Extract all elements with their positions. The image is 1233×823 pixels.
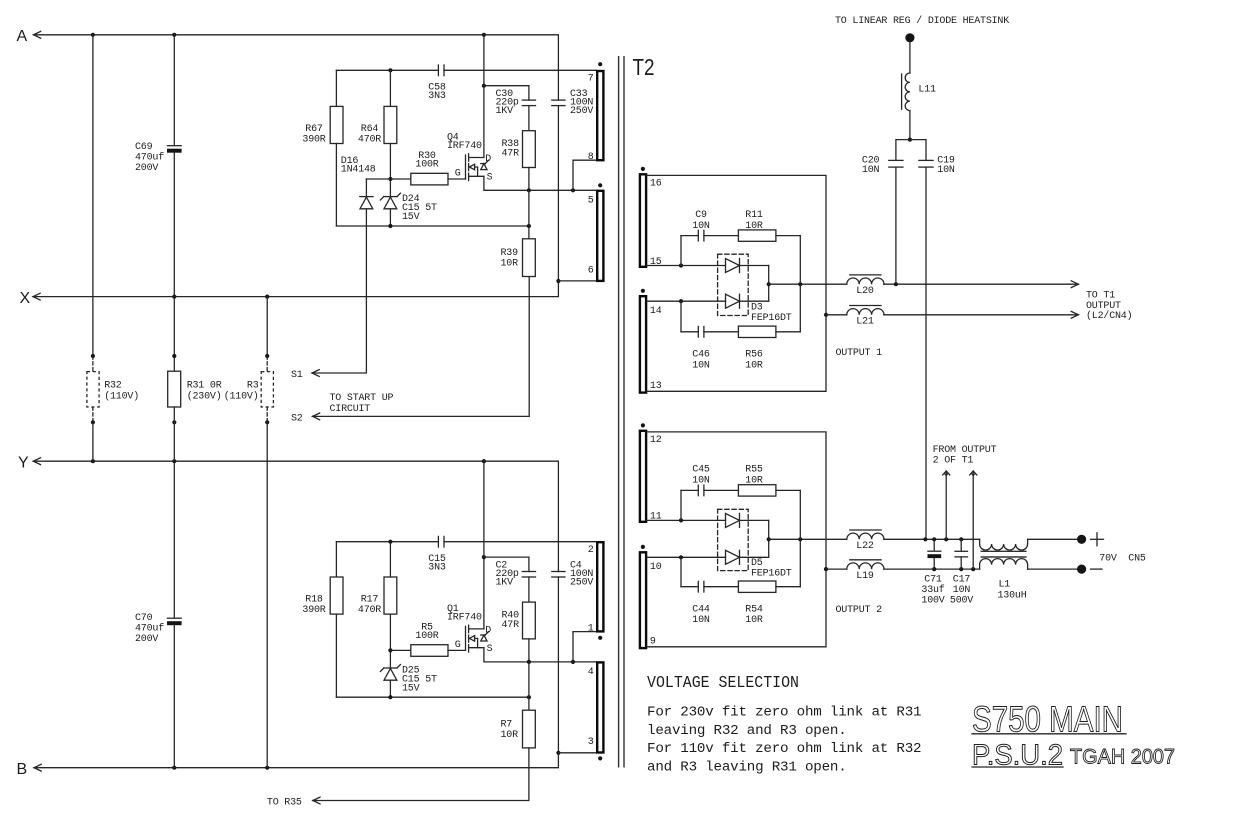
svg-text:(110V): (110V) [104, 390, 139, 402]
wire L11 to junction [909, 111, 911, 140]
svg-text:R17: R17 [361, 595, 379, 606]
inductor L20 [847, 278, 884, 284]
svg-text:15V: 15V [402, 683, 420, 694]
junction gate row/R17 [388, 648, 392, 652]
wire C46 to R56 [704, 331, 739, 333]
wire pin10 row [646, 556, 725, 558]
svg-text:C46: C46 [692, 350, 710, 361]
wire D5 upper cathode [740, 519, 769, 521]
junction out2/C17 [959, 537, 963, 541]
winding T2 pins 7-8 [598, 62, 602, 66]
junction ret/from-T1 b [971, 567, 975, 571]
resistor R64 [384, 106, 397, 143]
junction B/C70 [172, 766, 176, 770]
wire A rail [34, 31, 41, 38]
svg-text:IRF740: IRF740 [447, 141, 482, 152]
wire snubber row3 [681, 489, 698, 491]
wire pin14 row [646, 300, 725, 302]
wire gate lead [448, 178, 466, 180]
svg-text:10R: 10R [745, 221, 763, 232]
snubber C44 branch [680, 557, 682, 586]
svg-text:Y: Y [18, 455, 29, 472]
junction D5 output [767, 537, 771, 541]
wire R40 to source row [528, 639, 530, 662]
wire source row [484, 176, 597, 190]
svg-text:390R: 390R [302, 135, 325, 146]
wire R31 branch upper [173, 297, 175, 372]
wire bottom cell row pin2 [336, 541, 438, 543]
junction ret/C17 [959, 567, 963, 571]
inductor L11 [905, 73, 910, 111]
wire D3 cathode junction [768, 266, 770, 302]
node R3 top [265, 354, 269, 358]
svg-text:470uf: 470uf [135, 623, 164, 635]
svg-text:250V: 250V [570, 577, 593, 588]
svg-text:10R: 10R [745, 360, 763, 371]
junction out2/from-T1 a [944, 537, 948, 541]
svg-text:A: A [17, 28, 28, 45]
capacitor C46 [697, 327, 699, 338]
svg-text:CIRCUIT: CIRCUIT [330, 404, 371, 415]
winding T2 pins 2-1 [597, 542, 603, 631]
svg-text:14: 14 [650, 306, 662, 317]
wire snubber row1 [681, 235, 698, 237]
svg-text:47R: 47R [502, 620, 520, 631]
wire output1 mid row [769, 283, 847, 285]
wire R11 right [776, 235, 800, 237]
wire source row Q1 [484, 648, 597, 662]
wire pin15 row [646, 265, 725, 267]
junction out2/C19 [923, 537, 927, 541]
wire D3 lower cathode [740, 300, 769, 302]
svg-text:R3: R3 [247, 381, 259, 392]
node R32 top [91, 354, 95, 358]
wire C45 to R55 [704, 489, 739, 491]
capacitor C58 [437, 65, 439, 76]
svg-text:TO START UP: TO START UP [330, 393, 394, 404]
svg-text:R39: R39 [501, 248, 519, 259]
svg-text:10N: 10N [937, 165, 955, 176]
svg-text:9: 9 [650, 636, 656, 647]
resistor R3 (110V, not fitted) [266, 356, 268, 372]
inductor L1 bottom winding [980, 559, 1028, 570]
capacitor C4 [557, 542, 559, 572]
svg-text:For 110v fit zero ohm link at: For 110v fit zero ohm link at R32 [647, 741, 921, 757]
wire pin3 row [558, 752, 596, 754]
resistor R40 [523, 602, 536, 639]
svg-text:S2: S2 [291, 414, 303, 425]
svg-text:4: 4 [588, 667, 594, 678]
svg-text:S: S [487, 644, 493, 655]
snubber C46 branch [680, 301, 682, 332]
svg-text:1KV: 1KV [496, 577, 514, 588]
svg-text:L11: L11 [918, 84, 936, 95]
capacitor C9 [697, 230, 699, 241]
junction C4/pin3 [556, 751, 560, 755]
wire R39 upper leg [528, 190, 530, 239]
resistor R30 [411, 173, 448, 185]
wire D5 cathode junction [768, 520, 770, 557]
svg-text:200V: 200V [135, 163, 158, 174]
svg-text:10N: 10N [862, 165, 880, 176]
svg-text:VOLTAGE SELECTION: VOLTAGE SELECTION [647, 674, 799, 693]
capacitor C33 [557, 70, 559, 100]
svg-text:15V: 15V [402, 212, 420, 223]
svg-text:13: 13 [650, 381, 662, 392]
wire pin11 row [646, 519, 725, 521]
wire C20 to output1 [895, 167, 897, 284]
wire R17 to gate row [389, 614, 391, 650]
diode D16 1N4148 [360, 196, 373, 198]
wire pin8 elbow [573, 160, 597, 190]
node R31 bottom [172, 420, 176, 424]
transformer T2 core [618, 56, 620, 768]
svg-text:10R: 10R [745, 476, 763, 487]
svg-text:G: G [455, 640, 461, 651]
wire R64 to gate row [389, 144, 391, 180]
svg-text:L1: L1 [999, 580, 1011, 591]
resistor R17 [384, 577, 397, 614]
svg-text:S1: S1 [291, 370, 303, 381]
transistor Q1 IRF740 [465, 626, 467, 650]
junction gate row/R64 [388, 177, 392, 181]
junction Y/R32 [91, 459, 95, 463]
wire snubber right leg 2 [799, 490, 801, 586]
junction X/R3 [265, 295, 269, 299]
wire C44 to R54 [704, 586, 739, 588]
node R31 top [172, 354, 176, 358]
junction out2/C71 [932, 537, 936, 541]
capacitor C45 [697, 485, 699, 496]
svg-text:10N: 10N [692, 221, 710, 232]
wire C69 branch upper [173, 35, 175, 145]
svg-text:130uH: 130uH [998, 591, 1027, 602]
winding T2 pins 4-3 [597, 662, 603, 752]
resistor R18 [330, 577, 343, 614]
junction snubber/output2 [798, 537, 802, 541]
resistor R67 [330, 106, 343, 143]
zener D24 [389, 179, 391, 197]
wire Y rail [33, 458, 40, 465]
resistor R5 [411, 645, 448, 657]
terminal CN5 - [1077, 565, 1086, 574]
junction output1/C20 [894, 282, 898, 286]
svg-text:L21: L21 [856, 316, 874, 327]
svg-text:100R: 100R [415, 160, 438, 171]
wire snubber right leg [799, 236, 801, 332]
svg-text:TO LINEAR REG / DIODE HEATSINK: TO LINEAR REG / DIODE HEATSINK [835, 15, 1009, 27]
svg-text:5: 5 [588, 196, 594, 207]
wire top cell row pin7 [336, 69, 438, 71]
svg-text:C69: C69 [135, 142, 153, 153]
wire R54 right [776, 586, 800, 588]
junction L11/C20/C19 [908, 138, 912, 142]
resistor R32 (110V, not fitted) [92, 356, 94, 372]
svg-text:R67: R67 [305, 124, 323, 135]
wire Q1 drain to Y [483, 461, 485, 629]
svg-text:C9: C9 [695, 210, 707, 221]
svg-text:C44: C44 [692, 605, 710, 616]
wire B rail [34, 764, 41, 771]
wire snubber row4 [681, 586, 698, 588]
svg-text:OUTPUT 2: OUTPUT 2 [836, 605, 883, 616]
junction pin14/snubber [679, 299, 683, 303]
wire output2 loop 12-9 [646, 432, 826, 647]
wire gate row left [366, 178, 410, 180]
inductor L1 core [981, 550, 1027, 552]
capacitor C70 (electrolytic) [167, 617, 181, 619]
wire output1 to T1 [884, 283, 1079, 285]
wire R55 right [776, 489, 800, 491]
wire L1 to +terminal [1028, 538, 1077, 540]
diode D3 lower [726, 294, 740, 308]
capacitor C30 [528, 86, 530, 100]
junction source/R40 [527, 660, 531, 664]
junction C33/pin6 [556, 279, 560, 283]
junction pin15/snubber [679, 263, 683, 267]
wire heatsink to L11 [909, 42, 911, 73]
wire R32 branch lower [92, 422, 94, 461]
wire R38 to source row [528, 168, 530, 191]
svg-text:10N: 10N [953, 585, 971, 596]
svg-text:R55: R55 [745, 465, 763, 476]
svg-text:R32: R32 [104, 381, 122, 392]
junction bottom row/D24 [388, 224, 392, 228]
svg-text:and R3 leaving R31 open.: and R3 leaving R31 open. [647, 759, 847, 775]
svg-text:R56: R56 [745, 350, 763, 361]
junction A/R32 [91, 33, 95, 37]
svg-text:X: X [20, 290, 31, 307]
svg-text:T2: T2 [633, 54, 655, 80]
wire output2 mid row [769, 538, 847, 540]
junction A/Q4 drain [482, 33, 486, 37]
wire R17 leg upper [389, 542, 391, 577]
wire R18 leg [335, 542, 337, 577]
inductor L22 [847, 533, 884, 539]
wire C19 to output2 [925, 167, 927, 539]
junction row1/R64 [388, 68, 392, 72]
zener D25 [389, 650, 391, 668]
wire R67 to cell bottom [335, 144, 337, 227]
junction Y/Q1 drain [482, 459, 486, 463]
wire R56 right [776, 331, 800, 333]
svg-text:10R: 10R [501, 730, 519, 741]
svg-text:470R: 470R [358, 605, 381, 616]
svg-text:TGAH 2007: TGAH 2007 [1070, 746, 1175, 769]
svg-text:200V: 200V [135, 634, 158, 645]
wire from T1 a [943, 471, 950, 475]
svg-text:B: B [17, 761, 28, 778]
svg-text:R11: R11 [745, 210, 763, 221]
junction source/pin8 link [571, 188, 575, 192]
wire L19 row [826, 568, 847, 570]
wire R7 upper leg [528, 662, 530, 710]
svg-text:FEP16DT: FEP16DT [751, 568, 792, 579]
dashed box D5 [718, 509, 749, 570]
junction output2 loop/L19 [824, 567, 828, 571]
junction ret/C71 [932, 567, 936, 571]
svg-text:1KV: 1KV [496, 106, 514, 117]
winding T2 pins 12-11 [641, 423, 645, 427]
svg-text:500V: 500V [950, 596, 973, 607]
wire D3 upper cathode [740, 265, 769, 267]
svg-text:10N: 10N [692, 360, 710, 371]
wire R3 branch upper [266, 297, 268, 356]
wire L1 to -terminal [1028, 568, 1077, 570]
wire Q4 drain to A [483, 35, 485, 158]
svg-text:C17: C17 [953, 575, 971, 586]
svg-text:C45: C45 [692, 465, 710, 476]
wire R3 branch lower to B [266, 422, 268, 767]
svg-text:3: 3 [588, 737, 594, 748]
svg-text:10R: 10R [745, 615, 763, 626]
resistor R38 [523, 131, 536, 168]
capacitor C71 (electrolytic) [933, 539, 935, 550]
capacitor C2 [528, 557, 530, 571]
node R32 bottom [91, 420, 95, 424]
svg-text:470uf: 470uf [135, 151, 164, 163]
wire S1 [312, 370, 319, 377]
terminal to heatsink [905, 33, 914, 42]
junction bottom row/D25 [388, 695, 392, 699]
svg-text:12: 12 [650, 435, 662, 446]
svg-text:10N: 10N [692, 476, 710, 487]
wire C9 to R11 [704, 235, 739, 237]
capacitor C17 [960, 539, 962, 551]
junction pin10/snubber [679, 555, 683, 559]
svg-text:IRF740: IRF740 [447, 612, 482, 623]
resistor R7 [523, 710, 536, 748]
winding T2 pins 16-15 [641, 167, 645, 171]
svg-text:470R: 470R [358, 135, 381, 146]
snubber C9 branch [680, 236, 682, 266]
wire R18 to cell bottom [335, 614, 337, 697]
svg-text:3N3: 3N3 [428, 562, 446, 573]
inductor L1 top winding [980, 539, 1028, 550]
capacitor C20 [889, 159, 903, 161]
winding T2 pins 10-9 [641, 545, 645, 549]
junction drain/C2 row [482, 555, 486, 559]
snubber C45 branch [680, 490, 682, 520]
svg-text:10R: 10R [501, 259, 519, 270]
svg-text:R54: R54 [745, 605, 763, 616]
svg-text:TO R35: TO R35 [267, 798, 302, 809]
svg-text:100R: 100R [415, 631, 438, 642]
svg-text:2: 2 [588, 545, 594, 556]
svg-text:6: 6 [588, 266, 594, 277]
wire cap branch top [896, 140, 926, 161]
svg-text:D: D [485, 154, 491, 165]
dashed box D3 [718, 254, 749, 315]
winding T2 pins 14-13 [641, 289, 645, 293]
junction pin11/snubber [679, 518, 683, 522]
svg-text:L19: L19 [856, 571, 874, 582]
inductor L19 [847, 563, 884, 569]
wire output1 loop 16-13 [646, 175, 826, 391]
wire R7 to TO R35 [313, 748, 529, 801]
junction bottom row/R39 [527, 224, 531, 228]
wire C30 branch row [484, 85, 529, 87]
wire C70 branch upper [173, 461, 175, 618]
wire from T1 b [970, 471, 977, 475]
wire gate lead Q1 [448, 649, 466, 651]
svg-text:(L2/CN4): (L2/CN4) [1086, 310, 1132, 322]
svg-text:33uf: 33uf [921, 584, 944, 596]
svg-text:S: S [487, 173, 493, 184]
svg-text:(110V): (110V) [224, 390, 259, 402]
svg-text:For 230v fit zero ohm link at: For 230v fit zero ohm link at R31 [647, 705, 921, 721]
svg-text:10: 10 [650, 562, 662, 573]
junction Y/R31 [172, 459, 176, 463]
svg-text:R18: R18 [305, 595, 323, 606]
capacitor C69 (electrolytic) [167, 145, 181, 147]
svg-text:(230V): (230V) [187, 390, 222, 402]
wire pin1 elbow [573, 632, 597, 662]
wire cell bottom row [336, 225, 529, 227]
svg-text:390R: 390R [302, 605, 325, 616]
wire R31 branch lower [173, 407, 175, 461]
junction A/C69 [172, 33, 176, 37]
resistor R39 [523, 239, 536, 277]
svg-text:8: 8 [588, 152, 594, 163]
svg-text:R7: R7 [501, 719, 513, 730]
wire D5 lower cathode [740, 556, 769, 558]
svg-text:3N3: 3N3 [428, 91, 446, 102]
resistor R54 [738, 581, 776, 592]
resistor R11 [738, 230, 776, 241]
winding T2 pins 5-6 [598, 183, 602, 187]
junction B/R3 [265, 766, 269, 770]
svg-text:16: 16 [650, 179, 662, 190]
capacitor C19 [919, 159, 933, 161]
wire snubber row2 [681, 331, 698, 333]
junction source/pin1 link [571, 660, 575, 664]
svg-text:10N: 10N [692, 615, 710, 626]
capacitor C44 [697, 581, 699, 592]
svg-text:70V CN5: 70V CN5 [1099, 554, 1146, 565]
svg-text:OUTPUT 1: OUTPUT 1 [836, 348, 883, 359]
terminal CN5 + [1077, 535, 1086, 544]
wire C2 branch row [484, 556, 529, 558]
wire pin6 row [558, 280, 596, 282]
capacitor C15 3N3 [437, 536, 439, 547]
resistor R55 [738, 485, 776, 496]
wire cell bottom row Q1 [336, 696, 529, 698]
svg-text:FEP16DT: FEP16DT [751, 313, 792, 324]
junction snubber/output1 [798, 282, 802, 286]
wire R64 leg upper [389, 70, 391, 106]
junction output1 loop/L21 [824, 313, 828, 317]
svg-text:L20: L20 [856, 286, 874, 297]
diode D3 upper [726, 259, 740, 273]
diode D5 lower [726, 550, 740, 564]
wire gate row [390, 649, 410, 651]
wire output2 row to filter [884, 538, 980, 540]
wire S2 [313, 413, 320, 420]
svg-text:R31 0R: R31 0R [187, 381, 222, 392]
resistor R31 0R (230V) [168, 371, 181, 407]
svg-text:C70: C70 [135, 613, 153, 624]
svg-text:1: 1 [588, 624, 594, 635]
svg-text:R64: R64 [361, 124, 379, 135]
svg-text:D3: D3 [751, 303, 763, 314]
wire L21 to T1 [884, 314, 1079, 316]
inductor L21 [847, 309, 884, 315]
junction drain/C30 row [482, 84, 486, 88]
wire L21 row [826, 314, 847, 316]
svg-text:2 OF T1: 2 OF T1 [933, 455, 974, 466]
svg-text:7: 7 [588, 74, 594, 85]
